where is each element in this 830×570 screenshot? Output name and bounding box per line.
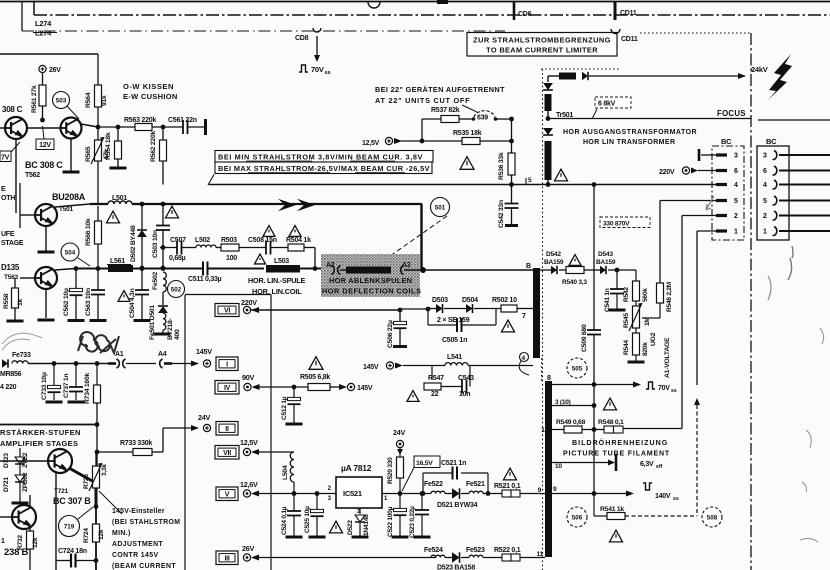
- svg-text:RSTÄRKER-STUFEN: RSTÄRKER-STUFEN: [0, 428, 81, 437]
- svg-text:5: 5: [734, 198, 738, 205]
- svg-text:D542: D542: [546, 251, 561, 258]
- wire focus line: [548, 118, 751, 120]
- resistor R540 3.3: [559, 269, 566, 271]
- node 12V box: [36, 139, 54, 150]
- svg-text:220V: 220V: [659, 169, 675, 176]
- wire to CRT pin9: [520, 493, 545, 495]
- transistor T721: [48, 449, 72, 473]
- inductor L501: [108, 201, 132, 204]
- resistor R558 1k: [14, 278, 16, 288]
- svg-text:R540 3,3: R540 3,3: [562, 279, 587, 286]
- node hint circle 502: [168, 281, 185, 298]
- svg-text:IC521: IC521: [343, 489, 362, 498]
- capacitor C733 10uF: [53, 364, 55, 388]
- svg-text:502: 502: [171, 286, 182, 293]
- wire 12.6V row: [259, 493, 336, 495]
- resistor R732 12k: [29, 528, 31, 531]
- svg-text:719: 719: [64, 523, 75, 530]
- svg-text:C504 4,3n: C504 4,3n: [129, 288, 136, 318]
- switch 639: [472, 117, 476, 121]
- svg-text:HOR ABLENKSPULEN: HOR ABLENKSPULEN: [329, 276, 412, 285]
- resistor R547 22: [431, 366, 433, 381]
- wire 12.5V row: [401, 140, 462, 142]
- svg-text:220V: 220V: [241, 298, 257, 307]
- wire line-2 mid: [133, 267, 203, 269]
- diode D543 BA159: [584, 269, 600, 271]
- wire R564 to node: [97, 107, 99, 127]
- warning triangle C521: [504, 468, 517, 480]
- svg-text:BU208A: BU208A: [52, 192, 86, 202]
- resistor R542 560k: [635, 270, 637, 281]
- svg-text:R505 6,8k: R505 6,8k: [300, 374, 330, 381]
- svg-text:BEI MIN STRAHLSTROM 3,8V/MIN B: BEI MIN STRAHLSTROM 3,8V/MIN BEAM CUR. 3…: [218, 153, 423, 162]
- svg-text:C524 0,1µ: C524 0,1µ: [281, 506, 288, 535]
- svg-text:R537 82k: R537 82k: [431, 107, 460, 114]
- node hint circle 719: [59, 516, 80, 537]
- svg-text:R521 0,1: R521 0,1: [494, 483, 521, 490]
- wire CD8 stub: [316, 36, 318, 55]
- svg-text:C561 22n: C561 22n: [168, 117, 197, 124]
- capacitor C508 15n: [265, 241, 267, 255]
- svg-text:C522 100µ: C522 100µ: [387, 506, 394, 537]
- svg-text:400: 400: [174, 329, 181, 340]
- svg-text:O-W KISSEN: O-W KISSEN: [123, 82, 174, 91]
- warning triangle D522: [330, 521, 343, 533]
- diode D542 BA159: [540, 269, 551, 271]
- resistor R505 6.8k: [308, 384, 330, 391]
- node hint circle 504: [61, 243, 79, 261]
- wire T562a emitter: [15, 139, 17, 213]
- svg-text:R554 18k: R554 18k: [105, 132, 112, 160]
- svg-text:3: 3: [734, 153, 738, 160]
- wire top border line: [0, 1, 830, 3]
- svg-text:IV: IV: [224, 385, 231, 392]
- capacitor C561 22n: [182, 120, 184, 134]
- wire A1-A4: [126, 363, 156, 365]
- svg-text:R565: R565: [85, 146, 92, 162]
- warning triangle C504: [118, 291, 130, 302]
- svg-text:R726: R726: [83, 474, 90, 489]
- svg-text:R564: R564: [85, 92, 92, 108]
- wire pin1 branch: [697, 230, 716, 232]
- svg-text:C521 1n: C521 1n: [441, 460, 466, 467]
- svg-text:V: V: [225, 491, 230, 498]
- wire cushion box top: [0, 53, 98, 55]
- svg-text:BC 307 B: BC 307 B: [53, 496, 91, 506]
- capacitor C541 1n: [616, 270, 618, 289]
- svg-text:UFE: UFE: [1, 231, 15, 238]
- node BC pin 1: [716, 229, 727, 232]
- warning triangle R541: [610, 530, 623, 542]
- resistor R535 18k: [462, 138, 480, 145]
- wire winding link: [547, 76, 549, 82]
- svg-text:D521 BYW34: D521 BYW34: [437, 502, 478, 509]
- diode Tr501 top: [543, 83, 553, 90]
- svg-text:R563 220k: R563 220k: [124, 117, 156, 124]
- wire distribution box right edge: [270, 295, 272, 570]
- wire cushion output row: [98, 126, 135, 128]
- node BC pin 6: [716, 169, 727, 172]
- node BC pin 5: [716, 199, 727, 202]
- capacitor C504 4.3n: [140, 266, 145, 271]
- svg-text:308 C: 308 C: [2, 105, 23, 114]
- svg-text:R544: R544: [623, 340, 630, 355]
- capacitor C509 680: [587, 329, 601, 331]
- svg-text:VI: VI: [224, 308, 230, 315]
- svg-text:10n: 10n: [459, 391, 470, 398]
- wire R726 leader: [99, 491, 122, 514]
- inductor L561: [108, 265, 133, 272]
- diode D522 1N4148: [359, 508, 361, 514]
- resistor R541 1k: [593, 494, 595, 517]
- svg-text:C509 680: C509 680: [581, 324, 588, 352]
- node hint circle 501: [431, 198, 450, 217]
- svg-text:1N4148: 1N4148: [363, 514, 370, 536]
- svg-text:BA159: BA159: [596, 259, 616, 266]
- wire T501 collector link: [55, 204, 90, 207]
- node hint circle 503: [53, 92, 70, 109]
- svg-text:R561 27k: R561 27k: [31, 85, 38, 113]
- svg-text:E: E: [1, 186, 6, 193]
- resistor R726 3.3k trimmer: [95, 452, 97, 466]
- wire IC out row: [382, 493, 431, 495]
- svg-text:12V: 12V: [39, 142, 51, 149]
- svg-text:R733 330k: R733 330k: [120, 440, 152, 447]
- svg-text:ZTE2: ZTE2: [22, 452, 29, 468]
- inductor L504: [290, 452, 294, 482]
- svg-text:OTH: OTH: [1, 195, 15, 202]
- svg-text:C562 10µ: C562 10µ: [63, 288, 70, 316]
- op-amp IC521 regulator: [336, 477, 382, 508]
- svg-text:C507: C507: [170, 237, 186, 244]
- inductor L502: [182, 247, 197, 249]
- svg-text:4 220: 4 220: [0, 384, 17, 391]
- wire T720 collector: [29, 495, 31, 506]
- svg-text:D543: D543: [598, 251, 613, 258]
- resistor R561 27k: [39, 85, 46, 106]
- resistor R563 220k: [135, 124, 152, 131]
- svg-text:STAGE: STAGE: [1, 240, 24, 247]
- wire 70Vss row: [552, 384, 637, 386]
- svg-text:6 8kV: 6 8kV: [598, 101, 616, 108]
- svg-text:(BEI STAHLSTROM: (BEI STAHLSTROM: [112, 519, 180, 526]
- node BC pin 3: [716, 153, 727, 156]
- svg-text:BC: BC: [721, 137, 732, 146]
- svg-text:145V: 145V: [363, 364, 379, 371]
- wire to C508: [239, 247, 266, 249]
- wire winding to bus: [547, 180, 549, 185]
- wire to Tr501 node: [547, 111, 549, 119]
- svg-text:ss: ss: [673, 496, 679, 502]
- inductor Fe524: [431, 555, 445, 557]
- svg-text:2: 2: [357, 509, 360, 515]
- svg-text:3: 3: [328, 496, 332, 502]
- warning triangle L503: [255, 254, 266, 264]
- svg-text:91k: 91k: [101, 95, 108, 106]
- svg-text:D523 BA158: D523 BA158: [437, 565, 475, 570]
- node hint circle 505: [567, 358, 587, 378]
- resistor R724 12k: [95, 506, 97, 524]
- resistor R520 330: [399, 448, 401, 457]
- wire R562 to bus: [162, 161, 164, 185]
- svg-text:BC 308 C: BC 308 C: [25, 160, 63, 170]
- svg-text:C525 10µ: C525 10µ: [304, 506, 311, 533]
- wire R565 down: [97, 161, 99, 204]
- node BC pin 4: [716, 183, 727, 186]
- inductor Fe523: [461, 557, 469, 559]
- resistor R566 10k: [97, 206, 99, 221]
- svg-text:C511 0,33µ: C511 0,33µ: [188, 276, 222, 283]
- svg-text:16,5V: 16,5V: [416, 460, 433, 467]
- svg-text:12k: 12k: [98, 529, 105, 540]
- wire distribution box top edge: [185, 294, 271, 296]
- svg-text:µA 7812: µA 7812: [341, 463, 372, 473]
- node pencil smudge d: [800, 482, 818, 542]
- wire R726 to node: [95, 488, 97, 506]
- resistor R554 18k: [117, 127, 119, 141]
- svg-text:12,6V: 12,6V: [240, 480, 258, 489]
- capacitor C523 0.22uF: [420, 491, 425, 496]
- capacitor C521 1n bypass: [421, 491, 426, 496]
- wire R564 column: [97, 54, 99, 85]
- ground R544: [635, 355, 637, 361]
- resistor R522 0.1: [483, 557, 502, 559]
- svg-text:C724 18n: C724 18n: [58, 548, 87, 555]
- ground T562b: [63, 171, 80, 174]
- diode D503: [428, 308, 436, 310]
- svg-text:R734 160k: R734 160k: [84, 373, 91, 404]
- wire R537 to switch: [459, 118, 473, 120]
- resistor R545 1M trimmer: [635, 301, 637, 306]
- node pencil smudge b: [768, 276, 771, 300]
- wire dotted box top: [640, 32, 750, 34]
- node hint circle 506: [567, 507, 587, 527]
- svg-text:10: 10: [555, 463, 562, 470]
- node CD11 connector: [611, 29, 620, 34]
- svg-text:0,68µ: 0,68µ: [169, 255, 186, 262]
- resistor R537 82k: [441, 116, 459, 123]
- wire 140Vss row: [552, 493, 630, 495]
- node handwritten 1000V: [78, 332, 119, 353]
- node 70Vss label: [646, 382, 655, 389]
- wire R505 to 145V: [330, 386, 339, 388]
- svg-text:145V: 145V: [357, 385, 373, 392]
- wire distribution box left edge: [184, 295, 186, 570]
- wire A3 to CRT: [420, 267, 426, 273]
- wire T720 base: [0, 516, 12, 518]
- diode Tr501 lower: [543, 128, 553, 135]
- inductor Fe522: [431, 491, 445, 493]
- wire 12.5V row: [259, 451, 294, 453]
- resistor R503 100: [216, 247, 221, 249]
- capacitor C737 1n: [75, 364, 77, 388]
- svg-text:R558: R558: [3, 293, 10, 309]
- wire 24kV line: [589, 75, 745, 77]
- svg-text:C512 1µ: C512 1µ: [281, 396, 288, 420]
- wire dash-dot bus lower: [21, 2, 23, 31]
- svg-text:ZPD62: ZPD62: [22, 472, 29, 492]
- capacitor C524 0.1uF: [292, 491, 297, 496]
- inductor L541: [445, 363, 468, 366]
- resistor R565 47k trimmer: [97, 127, 99, 140]
- inductor Fe521: [461, 493, 469, 495]
- svg-text:503: 503: [56, 97, 67, 104]
- svg-text:TO BEAM CURRENT LIMITER: TO BEAM CURRENT LIMITER: [486, 46, 598, 55]
- svg-text:506: 506: [572, 514, 583, 521]
- svg-text:560k: 560k: [642, 288, 649, 302]
- inductor Fe502: [161, 266, 166, 271]
- svg-text:C541 1n: C541 1n: [604, 288, 611, 312]
- svg-text:9: 9: [553, 486, 557, 493]
- svg-text:7: 7: [522, 313, 526, 320]
- capacitor C507 0.68uF: [176, 241, 178, 255]
- svg-text:R545: R545: [623, 313, 630, 328]
- svg-text:(BEAM CURRENT: (BEAM CURRENT: [112, 563, 176, 570]
- svg-text:R536 33k: R536 33k: [498, 152, 505, 180]
- resistor R544 820k: [635, 328, 637, 333]
- wire pin2 branch: [682, 215, 716, 217]
- wire R537 branch: [422, 118, 441, 120]
- warning triangle near R536: [460, 157, 474, 170]
- wire T563 base: [20, 277, 35, 279]
- wire CRT pin3 row: [552, 405, 594, 407]
- resistor R546 2.2M: [659, 303, 661, 318]
- wire T562 coupling: [27, 127, 61, 129]
- wire line-2 right: [208, 268, 265, 270]
- warning triangle R540: [569, 255, 581, 266]
- svg-text:BA159: BA159: [544, 259, 564, 266]
- wire R541 loop: [625, 515, 697, 517]
- resistor R562 220k: [162, 127, 164, 140]
- inductor Fe733: [12, 361, 28, 364]
- wire 24V feed: [163, 427, 191, 429]
- diode Fe501 D501: [162, 292, 164, 305]
- svg-text:BILDRÖHRENHEIZUNG: BILDRÖHRENHEIZUNG: [572, 438, 668, 447]
- warning triangle R547: [407, 391, 419, 402]
- node pencil smudge a: [788, 246, 793, 280]
- ground Fe501: [162, 330, 164, 333]
- wire lin row start: [160, 247, 177, 249]
- wire dotted bar2: [541, 358, 543, 381]
- wire thick deflection line: [90, 203, 108, 205]
- svg-text:ZUR STRAHLSTROMBEGRENZUNG: ZUR STRAHLSTROMBEGRENZUNG: [473, 36, 611, 45]
- resistor R521 0.1: [483, 493, 502, 495]
- svg-text:L504: L504: [282, 465, 289, 480]
- svg-text:HOR. LIN.-SPULE: HOR. LIN.-SPULE: [248, 276, 305, 285]
- resistor R536 33k: [511, 141, 513, 153]
- node hint circle 508: [702, 507, 722, 527]
- node 140Vss label: [643, 483, 652, 490]
- svg-text:I: I: [226, 361, 228, 368]
- warning triangle near CRT7: [502, 320, 515, 332]
- wire T721 base: [0, 460, 48, 462]
- warning triangle R548: [604, 398, 617, 410]
- svg-text:R566 10k: R566 10k: [85, 218, 92, 246]
- svg-text:100: 100: [226, 255, 237, 262]
- svg-text:HOR AUSGANGSTRANSFORMATOR: HOR AUSGANGSTRANSFORMATOR: [563, 129, 697, 136]
- svg-text:R541 1k: R541 1k: [600, 506, 624, 513]
- warning triangle L501: [107, 211, 120, 223]
- svg-text:24V: 24V: [198, 413, 210, 422]
- svg-text:A1: A1: [115, 351, 124, 358]
- capacitor C503 10n: [162, 204, 164, 225]
- node BC pin 2: [716, 214, 727, 217]
- wire A1 row: [28, 363, 112, 365]
- wire C509 column: [593, 185, 595, 331]
- svg-text:Fe523: Fe523: [466, 547, 485, 554]
- svg-text:R548 0,1: R548 0,1: [598, 419, 624, 426]
- svg-text:22: 22: [431, 391, 439, 398]
- wire dotted HV box top: [541, 68, 620, 70]
- wire T721 collector bend: [69, 468, 96, 506]
- svg-text:6: 6: [763, 168, 767, 175]
- svg-text:R503: R503: [221, 237, 237, 244]
- inductor deflection coil bar: [346, 267, 391, 274]
- node CRT pin4 connector: [520, 353, 529, 362]
- warning triangle at transformer foot: [555, 169, 568, 181]
- wire 424 row: [0, 424, 97, 426]
- svg-text:R522 0,1: R522 0,1: [494, 547, 521, 554]
- svg-text:A1-VOLTAGE: A1-VOLTAGE: [664, 337, 671, 378]
- node pencil mark arrow: [706, 196, 714, 210]
- svg-text:HOR LIN TRANSFORMER: HOR LIN TRANSFORMER: [583, 139, 675, 146]
- diode D502 BY448: [141, 204, 143, 229]
- svg-text:BEI MAX STRAHLSTROM-26,5V/MAX: BEI MAX STRAHLSTROM-26,5V/MAX BEAM CUR -…: [218, 164, 430, 173]
- node 16.5V note: [414, 456, 440, 468]
- svg-text:C506 22µ: C506 22µ: [387, 320, 394, 348]
- svg-text:Fe733: Fe733: [12, 352, 31, 359]
- svg-text:BEI 22" GERÄTEN AUFGETRENNT: BEI 22" GERÄTEN AUFGETRENNT: [375, 85, 505, 94]
- resistor R733 330k: [95, 450, 100, 455]
- svg-text:639: 639: [477, 115, 488, 122]
- svg-text:C542 33n: C542 33n: [498, 200, 505, 228]
- svg-text:ADJUSTMENT: ADJUSTMENT: [112, 541, 163, 548]
- svg-text:R504 1k: R504 1k: [286, 237, 311, 244]
- svg-text:24V: 24V: [393, 428, 405, 437]
- svg-text:Fe502: Fe502: [152, 272, 159, 290]
- wire R535 to node: [480, 140, 512, 142]
- svg-text:HOR DEFLECTION COILS: HOR DEFLECTION COILS: [322, 287, 421, 296]
- svg-text:A4: A4: [158, 351, 167, 358]
- wire BC pin3 stub: [701, 154, 716, 156]
- node deflection coils grey box: [321, 254, 420, 297]
- wire L541 to CRT: [468, 365, 533, 367]
- ground R554: [117, 159, 119, 167]
- svg-text:2 × SE 159: 2 × SE 159: [437, 317, 470, 324]
- svg-text:7V: 7V: [1, 155, 10, 162]
- node 330-870V note: [600, 217, 650, 228]
- wire thick deflection line run: [132, 203, 422, 205]
- svg-text:T563: T563: [4, 274, 18, 281]
- connector BC external: [757, 146, 789, 240]
- wire T721 emitter: [55, 471, 57, 570]
- svg-text:D721: D721: [3, 477, 10, 492]
- svg-text:L501: L501: [112, 195, 127, 202]
- svg-text:FOCUS: FOCUS: [717, 109, 746, 118]
- svg-text:III: III: [224, 555, 229, 562]
- capacitor C562 10uF: [74, 266, 79, 271]
- svg-text:C523 0,22µ: C523 0,22µ: [409, 506, 416, 538]
- svg-text:R546 2,2M: R546 2,2M: [666, 281, 673, 312]
- svg-text:145V: 145V: [196, 347, 212, 356]
- wire node column: [511, 119, 513, 141]
- node top-line tick: [437, 0, 448, 4]
- svg-text:UG2: UG2: [650, 332, 657, 346]
- svg-text:D522: D522: [347, 520, 354, 535]
- svg-text:C508 15n: C508 15n: [248, 237, 277, 244]
- svg-text:L541: L541: [447, 354, 462, 361]
- node beam current max note: [215, 162, 432, 174]
